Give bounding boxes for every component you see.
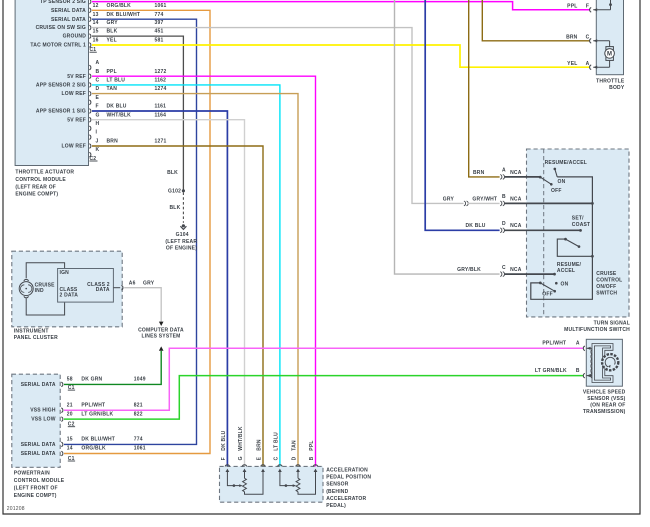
svg-text:1161: 1161 (155, 104, 167, 110)
svg-text:OF ENGINE): OF ENGINE) (166, 245, 197, 251)
svg-text:ON/OFF: ON/OFF (596, 284, 616, 290)
svg-text:ACCELERATION: ACCELERATION (326, 468, 368, 474)
ground G104 symbol (182, 224, 185, 227)
svg-text:821: 821 (134, 402, 143, 408)
VSS pin A connector (583, 346, 585, 351)
svg-text:LINES SYSTEM: LINES SYSTEM (141, 334, 180, 340)
wire BRN from top to cruise switch A (469, 0, 500, 177)
wire BLK dashed to G104 (182, 192, 184, 222)
svg-text:12: 12 (93, 3, 99, 9)
svg-text:IND: IND (35, 288, 44, 294)
svg-text:PPL: PPL (309, 440, 315, 450)
svg-text:IGN: IGN (60, 270, 70, 276)
wire WHT/BLK 1164 5v ref to APPS G (92, 120, 245, 470)
svg-text:K: K (96, 147, 100, 153)
svg-text:GRY: GRY (107, 20, 119, 26)
svg-text:SENSOR (VSS): SENSOR (VSS) (587, 396, 625, 402)
svg-text:SET/: SET/ (572, 216, 584, 222)
svg-text:BLK: BLK (167, 170, 178, 176)
svg-text:774: 774 (134, 437, 143, 443)
svg-text:COAST: COAST (572, 222, 591, 228)
svg-text:G102: G102 (168, 189, 181, 195)
cruise NCA wire A (505, 176, 541, 178)
label ACCELERATION PEDAL POSITION SENSOR (326, 468, 371, 510)
label VEHICLE SPEED SENSOR (583, 389, 626, 415)
svg-text:1164: 1164 (155, 112, 167, 118)
svg-text:VSS HIGH: VSS HIGH (30, 408, 56, 414)
svg-text:WHT/BLK: WHT/BLK (107, 112, 132, 118)
svg-text:58: 58 (67, 377, 73, 383)
svg-text:C: C (586, 34, 590, 40)
TACM label text (15, 170, 74, 198)
svg-text:15: 15 (93, 29, 99, 35)
svg-text:A: A (586, 61, 590, 67)
svg-text:D: D (292, 456, 298, 460)
svg-text:D: D (502, 221, 506, 227)
wire GRY from IPC to data lines arrow (124, 288, 161, 322)
svg-text:OFF: OFF (542, 292, 553, 298)
svg-text:14: 14 (67, 446, 73, 452)
throttle body internal wire to F with junction (610, 0, 612, 10)
svg-text:LT GRN/BLK: LT GRN/BLK (81, 411, 113, 417)
svg-text:1061: 1061 (155, 3, 167, 9)
wire DK BLU from top to cruise switch D (425, 0, 499, 230)
svg-text:ON: ON (561, 281, 569, 287)
svg-text:E: E (257, 456, 263, 460)
wire LT BLU 1162 app sensor 2 sig to APPS C (92, 85, 280, 469)
svg-text:F: F (221, 457, 227, 460)
svg-text:DK BLU/WHT: DK BLU/WHT (107, 12, 141, 18)
svg-text:GROUND: GROUND (63, 34, 87, 40)
svg-text:D: D (96, 86, 100, 92)
svg-text:G: G (238, 456, 244, 460)
splice GRY to GRY/WHT (464, 201, 468, 206)
svg-text:(BEHIND: (BEHIND (326, 489, 348, 495)
svg-text:B: B (96, 69, 100, 75)
svg-text:1061: 1061 (134, 446, 146, 452)
wire BRN 1271 low ref to APPS E (92, 146, 263, 469)
svg-text:POWERTRAIN: POWERTRAIN (14, 470, 50, 476)
throttle actuator control module TACM box (15, 0, 88, 166)
svg-text:SWITCH: SWITCH (596, 290, 617, 296)
throttle body pin F connector (590, 8, 592, 13)
svg-text:MULTIFUNCTION SWITCH: MULTIFUNCTION SWITCH (564, 327, 630, 333)
TACM C2 pin brackets and labels (89, 60, 166, 162)
wire BLK 451 ground to G102 (92, 36, 183, 191)
svg-text:BRN: BRN (107, 139, 119, 145)
svg-text:BRN: BRN (257, 439, 263, 451)
svg-text:20: 20 (67, 411, 73, 417)
svg-text:C: C (96, 78, 100, 84)
svg-text:G: G (96, 112, 100, 118)
svg-text:THROTTLE: THROTTLE (596, 79, 625, 85)
inner dashed divider (543, 149, 545, 317)
svg-text:201208: 201208 (7, 506, 25, 512)
throttle motor M (609, 41, 611, 47)
acceleration pedal position sensor dashed box (220, 466, 324, 502)
VSS reluctor gear (602, 354, 618, 370)
powertrain control module dashed box (12, 374, 60, 467)
svg-text:16: 16 (93, 38, 99, 44)
svg-text:APP SENSOR 1 SIG: APP SENSOR 1 SIG (36, 109, 86, 115)
APPS potentiometer 1 (227, 472, 263, 495)
VSS coil (591, 350, 592, 379)
svg-text:1049: 1049 (134, 377, 146, 383)
label POWERTRAIN CONTROL MODULE (14, 470, 65, 499)
svg-text:451: 451 (155, 29, 164, 35)
svg-text:SERIAL DATA: SERIAL DATA (51, 8, 86, 14)
wire PPL 1272 5v ref to APPS B (92, 76, 316, 469)
resume/accel upper switch (539, 168, 557, 186)
svg-text:OFF: OFF (551, 188, 562, 194)
svg-text:M: M (607, 52, 612, 58)
svg-text:(ON REAR OF: (ON REAR OF (590, 403, 625, 409)
svg-text:CONTROL MODULE: CONTROL MODULE (14, 478, 65, 484)
svg-text:LT BLU: LT BLU (274, 432, 280, 451)
svg-text:2 DATA: 2 DATA (60, 292, 79, 298)
IPC output wire and bracket A6 (113, 287, 120, 289)
svg-text:CRUISE ON SW SIG: CRUISE ON SW SIG (36, 25, 86, 31)
cruise NCA wire B to bus (505, 202, 593, 204)
wire TAN 1274 low ref to APPS D (92, 94, 298, 470)
svg-text:BODY: BODY (609, 85, 625, 91)
svg-text:DATA: DATA (96, 287, 110, 293)
svg-text:581: 581 (155, 38, 164, 44)
svg-text:LT BLU: LT BLU (107, 78, 126, 84)
VSS pole piece (592, 344, 613, 383)
svg-text:DK BLU: DK BLU (221, 430, 227, 450)
cruise NCA wire D (505, 229, 581, 231)
svg-text:SERIAL DATA: SERIAL DATA (21, 451, 56, 457)
svg-text:TAC MOTOR CNTRL 1: TAC MOTOR CNTRL 1 (30, 43, 86, 49)
svg-text:DK BLU/WHT: DK BLU/WHT (81, 437, 115, 443)
svg-text:(LEFT REAR OF: (LEFT REAR OF (15, 184, 56, 190)
lamp loop wires (26, 263, 64, 279)
throttle body box (596, 0, 623, 75)
APPS potentiometer 2 (280, 472, 316, 495)
svg-text:(LEFT FRONT OF: (LEFT FRONT OF (14, 485, 58, 491)
svg-text:B: B (309, 456, 315, 460)
wire YEL 581 TAC motor control to throttle body A (92, 45, 590, 67)
svg-text:1162: 1162 (155, 78, 167, 84)
svg-text:SERIAL DATA: SERIAL DATA (51, 17, 86, 23)
svg-text:GRY: GRY (143, 280, 155, 286)
computer data lines up arrow (159, 346, 164, 350)
wire DK BLU 1161 app sensor 1 sig to APPS F (92, 111, 227, 469)
set/coast switch (557, 238, 594, 258)
svg-text:A: A (502, 168, 506, 174)
svg-text:YEL: YEL (107, 38, 117, 44)
svg-text:LOW REF: LOW REF (62, 144, 86, 150)
APPS pin connectors and vertical labels (221, 426, 318, 472)
instrument panel cluster dashed box (12, 251, 122, 327)
svg-text:THROTTLE ACTUATOR: THROTTLE ACTUATOR (15, 170, 74, 176)
VSS pin B connector (583, 373, 585, 378)
svg-text:LT GRN/BLK: LT GRN/BLK (535, 368, 567, 374)
svg-text:DK BLU: DK BLU (107, 104, 127, 110)
class 2 data box (58, 269, 114, 303)
svg-text:CONTROL: CONTROL (596, 277, 622, 283)
svg-text:PPL: PPL (107, 69, 117, 75)
svg-text:1271: 1271 (155, 139, 167, 145)
wire GRY/BLK from top to cruise switch C (395, 0, 500, 274)
svg-text:GRY/BLK: GRY/BLK (457, 267, 481, 273)
svg-text:PEDAL): PEDAL) (326, 503, 346, 509)
svg-text:F: F (586, 3, 589, 9)
svg-text:13: 13 (93, 12, 99, 18)
cruise NCA wire C (505, 273, 555, 275)
svg-text:BRN: BRN (473, 170, 485, 176)
svg-text:ENGINE COMPT): ENGINE COMPT) (14, 493, 57, 499)
svg-text:TP SENSOR 2 SIG: TP SENSOR 2 SIG (40, 0, 86, 5)
PCM pin rows (61, 377, 145, 462)
svg-text:VEHICLE SPEED: VEHICLE SPEED (583, 389, 626, 395)
svg-text:F: F (96, 104, 99, 110)
svg-text:ORG/BLK: ORG/BLK (107, 3, 132, 9)
svg-text:COMPUTER DATA: COMPUTER DATA (138, 327, 184, 333)
svg-text:21: 21 (67, 402, 73, 408)
TACM C1 left signal labels (30, 0, 86, 49)
cruise bus right side (531, 177, 593, 299)
svg-text:PPL/WHT: PPL/WHT (542, 341, 566, 347)
svg-text:(LEFT REAR: (LEFT REAR (165, 239, 197, 245)
svg-text:YEL: YEL (567, 61, 577, 67)
wire DK BLU/WHT 774 serial data to PCM 15 (64, 19, 197, 444)
svg-text:PEDAL POSITION: PEDAL POSITION (326, 475, 371, 481)
svg-text:ACCEL: ACCEL (557, 268, 575, 274)
svg-text:TAN: TAN (292, 440, 298, 451)
svg-text:DK BLU: DK BLU (466, 223, 486, 229)
cruise indicator lamp (19, 279, 33, 297)
svg-text:A: A (576, 341, 580, 347)
svg-text:CONTROL MODULE: CONTROL MODULE (15, 177, 66, 183)
svg-text:NCA: NCA (510, 267, 522, 273)
svg-text:774: 774 (155, 12, 164, 18)
svg-text:B: B (576, 368, 580, 374)
throttle body pin C connector (590, 39, 592, 44)
svg-text:SERIAL DATA: SERIAL DATA (21, 382, 56, 388)
svg-text:APP SENSOR 2 SIG: APP SENSOR 2 SIG (36, 83, 86, 89)
svg-text:822: 822 (134, 411, 143, 417)
TACM C1 pin brackets and labels (89, 0, 166, 53)
svg-text:PPL: PPL (567, 3, 577, 9)
svg-text:VSS LOW: VSS LOW (31, 417, 56, 423)
svg-text:PPL/WHT: PPL/WHT (81, 402, 105, 408)
turn signal multifunction switch dashed box (527, 149, 630, 317)
svg-text:1272: 1272 (155, 69, 167, 75)
svg-text:TAN: TAN (107, 86, 118, 92)
vehicle speed sensor box (586, 339, 622, 386)
svg-text:A6: A6 (129, 280, 136, 286)
wire PPL TP sensor 2 sig to throttle body F (92, 2, 590, 10)
wire BRN from top to throttle body C (482, 0, 589, 41)
svg-text:NCA: NCA (510, 196, 522, 202)
svg-text:ON: ON (558, 179, 566, 185)
svg-text:E: E (96, 95, 100, 101)
svg-text:1274: 1274 (155, 86, 167, 92)
svg-text:NCA: NCA (510, 223, 522, 229)
svg-text:DK GRN: DK GRN (81, 377, 102, 383)
svg-text:5V REF: 5V REF (67, 74, 86, 80)
svg-text:INSTRUMENT: INSTRUMENT (14, 328, 49, 334)
svg-text:SENSOR: SENSOR (326, 482, 349, 488)
svg-text:ACCELERATOR: ACCELERATOR (326, 496, 366, 502)
svg-text:B: B (502, 194, 506, 200)
svg-text:BLK: BLK (107, 29, 118, 35)
svg-text:GRY: GRY (443, 196, 455, 202)
svg-text:15: 15 (67, 437, 73, 443)
svg-text:14: 14 (93, 20, 99, 26)
svg-text:WHT/BLK: WHT/BLK (238, 426, 244, 451)
svg-text:RESUME/: RESUME/ (557, 262, 582, 268)
resume/accel lower switch (539, 282, 558, 293)
svg-text:5V REF: 5V REF (67, 117, 86, 123)
svg-text:TRANSMISSION): TRANSMISSION) (583, 409, 626, 415)
wire ORG/BLK 1061 serial data to PCM 14 (64, 10, 210, 453)
svg-text:ENGINE COMPT): ENGINE COMPT) (15, 192, 58, 198)
svg-text:A: A (96, 60, 100, 66)
svg-text:TURN SIGNAL: TURN SIGNAL (594, 321, 630, 327)
svg-text:GRY/WHT: GRY/WHT (472, 196, 497, 202)
svg-text:ORG/BLK: ORG/BLK (81, 446, 106, 452)
throttle body pin A connector (593, 66, 609, 68)
cruise splices at connector (500, 175, 504, 180)
label CRUISE CONTROL ON/OFF SWITCH (596, 271, 622, 297)
PCM left signal labels (21, 382, 56, 457)
svg-text:SERIAL DATA: SERIAL DATA (21, 442, 56, 448)
svg-text:H: H (96, 121, 100, 127)
computer data lines down arrow (159, 322, 164, 326)
wire LT GRN/BLK 822 vss low to VSS B (64, 376, 583, 420)
svg-text:NCA: NCA (510, 170, 522, 176)
svg-text:C: C (502, 265, 506, 271)
wire GRY 397 cruise on sw sig (92, 28, 464, 204)
svg-text:C: C (274, 456, 280, 460)
svg-text:LOW REF: LOW REF (62, 91, 86, 97)
svg-text:RESUME/ACCEL: RESUME/ACCEL (545, 160, 587, 166)
wire GRY/WHT to cruise switch B (467, 202, 499, 204)
svg-text:J: J (96, 139, 99, 145)
wire PPL/WHT 821 vss high to VSS A (64, 348, 583, 410)
svg-text:PANEL CLUSTER: PANEL CLUSTER (14, 335, 58, 341)
svg-text:397: 397 (155, 20, 164, 26)
TACM C2 left signal labels (36, 74, 86, 150)
svg-text:G104: G104 (176, 232, 189, 238)
svg-text:BRN: BRN (566, 34, 578, 40)
cruise NCA pin labels (502, 168, 522, 273)
svg-text:BLK: BLK (170, 205, 181, 211)
svg-text:CRUISE: CRUISE (596, 271, 617, 277)
wire DK GRN 1049 from PCM 58 to data lines (64, 351, 161, 385)
